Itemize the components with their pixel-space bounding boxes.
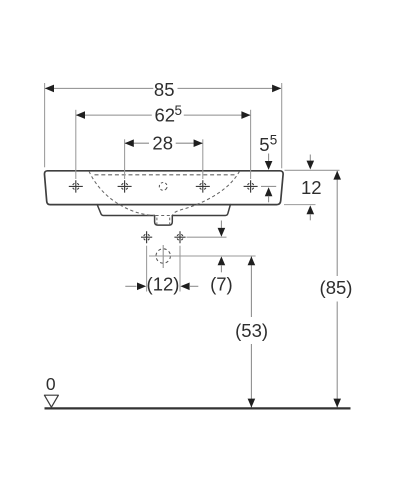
siphon outlet dashed circle (156, 249, 170, 263)
tap hole dashed circle center (158, 181, 169, 192)
extension line hole outer-left (75, 110, 77, 179)
dimension 85 line (45, 87, 281, 89)
dimension 12 top arrow (309, 155, 311, 162)
extension line basin right (281, 83, 283, 168)
dimension (85) arrowheads (333, 171, 341, 408)
extension line basin left (44, 83, 46, 167)
dimension (12) label (147, 274, 180, 295)
tap hole cross 2 (118, 180, 132, 192)
dimension 5.5 bottom arrow (265, 187, 273, 196)
floor line (45, 407, 351, 409)
tap hole cross 1 (69, 180, 83, 192)
extension line (7) top (187, 236, 227, 238)
dimension (53) label (235, 320, 268, 341)
dimension 85 label (154, 79, 175, 100)
fixing hole cross right (174, 231, 185, 243)
svg-text:62: 62 (155, 104, 176, 125)
dimension (7) bottom arrow (218, 256, 226, 265)
svg-text:5: 5 (259, 134, 269, 155)
dimension (7) label (210, 274, 233, 295)
dimension (53) line (250, 256, 252, 408)
dimension 85 arrowheads (45, 85, 281, 93)
datum triangle symbol (44, 395, 58, 407)
tap hole cross 3 (196, 180, 210, 192)
svg-text:0: 0 (46, 374, 56, 394)
bowl hidden rim dashed line (95, 174, 237, 176)
extension line hole inner-left (124, 139, 126, 179)
dimension 28 label (152, 132, 173, 153)
dimension 12 label (301, 177, 322, 198)
svg-text:12: 12 (301, 177, 322, 198)
dimension (85) line (336, 171, 338, 408)
dimension 28 arrowheads (125, 139, 203, 147)
bowl hidden left curve (89, 171, 154, 215)
tap hole cross 4 (244, 180, 258, 192)
extension line hole inner-right (202, 139, 204, 179)
siphon center vertical line (162, 245, 164, 268)
extension line fixing left (146, 246, 148, 292)
dimension 28 line (125, 142, 202, 144)
dimension 62.5 label (155, 104, 176, 125)
svg-text:(7): (7) (210, 274, 233, 295)
svg-text:(53): (53) (235, 320, 268, 341)
dimension 5.5 label (259, 134, 269, 155)
drain outlet box (155, 216, 173, 226)
basin body outline (44, 171, 283, 205)
dimension 62.5 arrowheads (76, 111, 251, 119)
basin apron (lower ledge) (97, 205, 230, 216)
dimension (12) right arrow (180, 283, 189, 291)
dimension 12 bottom arrow (307, 205, 315, 214)
svg-text:(12): (12) (147, 274, 180, 295)
extension line 12 bottom (284, 204, 316, 206)
dimension 5.5 top arrow (268, 154, 270, 162)
dimension (85) label (320, 277, 353, 298)
extension line hole outer-right (250, 110, 252, 179)
extension line fixing right (179, 246, 181, 292)
svg-text:5: 5 (175, 103, 183, 118)
bowl hidden right curve (173, 171, 240, 215)
fixing hole cross left (141, 231, 152, 243)
svg-text:28: 28 (152, 132, 173, 153)
svg-text:(85): (85) (320, 277, 353, 298)
dimension (53) arrowheads (248, 256, 256, 407)
drain hidden dashed lines (156, 216, 172, 225)
dimension 62.5 line (76, 114, 250, 116)
svg-text:85: 85 (154, 79, 175, 100)
dimension (7) top arrow (220, 221, 222, 229)
svg-text:5: 5 (270, 133, 278, 148)
extension line (7) bottom / siphon center (149, 255, 256, 257)
dimension 5.5 bottom tick (261, 185, 276, 187)
datum zero label (46, 374, 56, 394)
extension line 12 top (285, 169, 340, 171)
dimension (12) left arrow (125, 285, 136, 287)
